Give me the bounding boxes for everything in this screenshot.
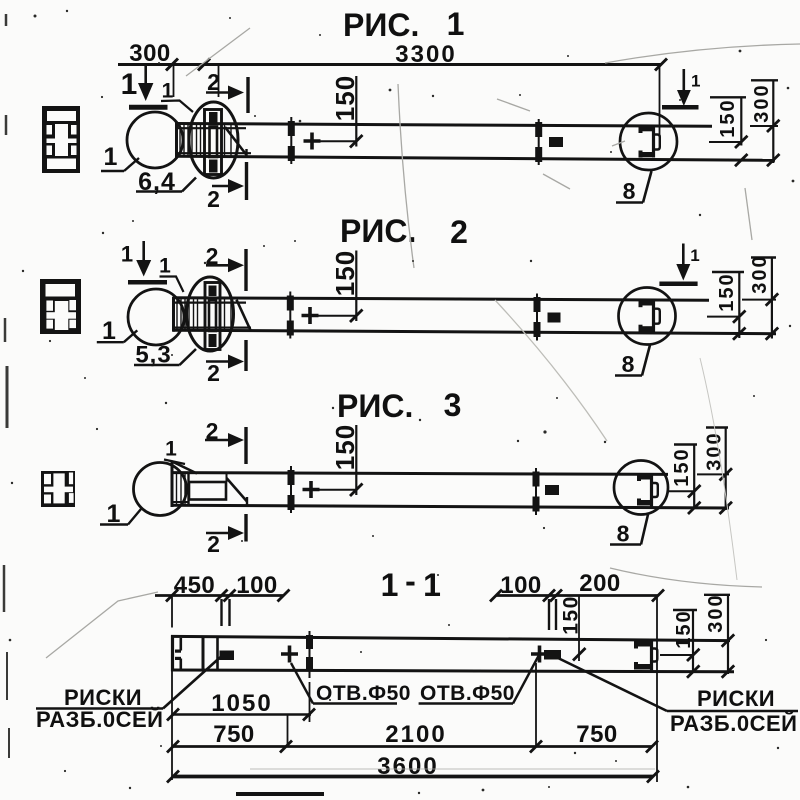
- section marker 1 right fig2: [659, 244, 697, 284]
- dim 150 right sect: [660, 610, 700, 672]
- dim 150 right fig1: [709, 97, 748, 148]
- dim 1050: [167, 682, 315, 722]
- section marker 1 right fig1: [662, 69, 699, 107]
- svg-text:РАЗБ.0СЕЙ: РАЗБ.0СЕЙ: [670, 711, 797, 736]
- svg-text:1: 1: [690, 246, 699, 265]
- detail circle 8 fig2: [619, 288, 676, 345]
- hatch block fig1 left end: [177, 124, 251, 157]
- left bracket sect: [175, 638, 181, 670]
- svg-text:8: 8: [617, 521, 630, 547]
- svg-text:2: 2: [207, 360, 220, 386]
- label otv f50 right: [420, 682, 515, 705]
- svg-text:3600: 3600: [377, 753, 438, 780]
- beam section 1-1: [171, 635, 734, 672]
- black mark fig1: [549, 137, 563, 147]
- section marker 2 bottom fig2: [206, 340, 246, 371]
- hatch block fig2 left end: [174, 298, 251, 331]
- svg-text:1: 1: [159, 255, 171, 278]
- svg-text:1: 1: [162, 80, 174, 103]
- end bracket fig3: [637, 473, 658, 507]
- end bracket fig1: [639, 125, 660, 158]
- black mark fig2: [548, 313, 561, 323]
- dim 150 mid fig2: [311, 251, 363, 323]
- black mark sect right: [544, 650, 561, 660]
- svg-text:750: 750: [213, 721, 255, 748]
- label 1 circle fig1: [104, 143, 118, 171]
- svg-text:1: 1: [121, 242, 133, 267]
- label riski left: [36, 685, 163, 732]
- axis mark plate fig3: [533, 468, 540, 515]
- beam fig2: [173, 297, 776, 334]
- svg-text:3300: 3300: [395, 41, 456, 68]
- dim 300 right fig2: [733, 258, 778, 340]
- dims 450 100 top left sect: [155, 590, 290, 628]
- svg-text:150: 150: [671, 447, 693, 486]
- svg-text:-: -: [405, 563, 416, 599]
- right bracket sect: [634, 640, 657, 670]
- label 1 circle fig2: [102, 317, 116, 345]
- label otv f50 left: [316, 682, 411, 705]
- svg-text:450: 450: [174, 572, 216, 599]
- svg-text:100: 100: [236, 572, 278, 599]
- label 8 fig1: [623, 178, 636, 204]
- dims 100 200 top right sect: [490, 590, 664, 783]
- svg-text:300: 300: [751, 83, 773, 122]
- svg-text:150: 150: [673, 609, 695, 648]
- svg-text:750: 750: [576, 721, 618, 748]
- svg-text:150: 150: [330, 250, 360, 296]
- dim text 3300: [395, 41, 456, 68]
- svg-text:150: 150: [717, 98, 739, 137]
- svg-text:2: 2: [207, 69, 220, 95]
- svg-text:РИС.: РИС.: [337, 388, 413, 424]
- axis mark plate fig1: [535, 119, 542, 165]
- dim 300 right sect: [687, 595, 734, 678]
- svg-text:1: 1: [447, 6, 465, 42]
- svg-text:8: 8: [623, 178, 636, 204]
- svg-text:2: 2: [206, 243, 219, 269]
- svg-text:300: 300: [704, 431, 726, 470]
- svg-text:2: 2: [207, 186, 220, 212]
- section marker 2 top fig2: [206, 249, 246, 291]
- axis mark plate fig2: [534, 294, 541, 341]
- svg-text:2: 2: [206, 418, 219, 444]
- inner plates sect left: [203, 637, 218, 671]
- section marker 2 bottom fig3: [206, 514, 246, 542]
- dim 150 mid fig1: [313, 76, 363, 148]
- black mark sect left: [220, 651, 235, 661]
- dim 150 mid fig3: [312, 425, 363, 496]
- svg-text:100: 100: [500, 572, 542, 599]
- svg-text:РИС.: РИС.: [340, 213, 416, 249]
- svg-text:1: 1: [102, 317, 116, 345]
- cross-section symbol fig3: [41, 471, 75, 507]
- dim 750 2100 750: [167, 663, 658, 753]
- cross-section symbol fig2: [40, 279, 81, 334]
- dim 150 right fig2: [707, 272, 746, 338]
- cross-section symbol fig1: [42, 106, 80, 173]
- svg-text:1: 1: [381, 567, 399, 603]
- axis cross fig1: [304, 133, 321, 150]
- detail circle 8 fig1: [620, 113, 677, 170]
- svg-text:3: 3: [444, 387, 462, 423]
- label 5,3 fig2: [135, 342, 171, 369]
- page edge dashes left: [4, 14, 9, 758]
- beam fig3: [171, 461, 729, 508]
- svg-text:2100: 2100: [385, 721, 446, 748]
- thick tick dim left fig3: [288, 466, 295, 513]
- title 1 - 1: [381, 563, 441, 603]
- svg-text:2: 2: [450, 214, 468, 250]
- hatch block fig3 left end: [172, 473, 189, 506]
- svg-text:1: 1: [121, 68, 138, 101]
- section marker 2 top fig1: [206, 77, 248, 113]
- label 6,4 fig1: [138, 168, 176, 196]
- anchor bolt fig1: [205, 110, 222, 175]
- thick tick dim sect: [306, 631, 313, 678]
- svg-text:РИСКИ: РИСКИ: [697, 686, 775, 711]
- dim text 300: [129, 40, 171, 67]
- detail circle 1 fig3: [134, 463, 187, 516]
- svg-text:1: 1: [423, 567, 441, 603]
- detail circle 1 fig1: [127, 112, 183, 168]
- svg-text:8: 8: [622, 351, 635, 377]
- title РИС. 3: [337, 387, 461, 424]
- black mark fig3: [545, 485, 559, 495]
- svg-text:РИС.: РИС.: [343, 7, 419, 43]
- svg-text:1: 1: [691, 72, 700, 91]
- thick tick dim left fig2: [287, 292, 294, 339]
- axis cross sect left: [281, 646, 298, 663]
- section marker 1 left fig2: [128, 241, 167, 282]
- detail ellipse fig2: [187, 277, 234, 351]
- section marker 2 top fig3: [205, 427, 246, 464]
- label 1 bolt fig1: [162, 80, 174, 103]
- svg-text:1050: 1050: [211, 690, 272, 717]
- dim 150 right fig3: [668, 445, 701, 510]
- label 1 circle fig3: [107, 500, 121, 528]
- axis cross fig3: [303, 481, 320, 498]
- axis cross fig2: [302, 307, 319, 324]
- anchor bolt fig2: [205, 283, 220, 350]
- thick tick dim left fig1: [288, 117, 295, 164]
- svg-text:300: 300: [129, 40, 171, 67]
- svg-text:200: 200: [579, 570, 621, 597]
- svg-text:150: 150: [330, 424, 360, 470]
- dim 3600: [167, 671, 659, 783]
- label riski right: [670, 686, 797, 736]
- detail ellipse fig1: [189, 102, 238, 178]
- dim 300 right fig1: [735, 80, 780, 166]
- svg-text:150: 150: [716, 272, 738, 311]
- svg-text:ОТВ.Ф50: ОТВ.Ф50: [316, 682, 411, 705]
- beam fig1: [176, 123, 775, 161]
- label 8 fig2: [622, 351, 635, 377]
- bottom page mark: [236, 792, 324, 796]
- svg-text:1: 1: [165, 438, 177, 461]
- label 1 bolt fig2: [159, 255, 171, 278]
- dim 300 right fig3: [688, 428, 732, 515]
- dimension 300/3300 top line fig1: [118, 59, 667, 136]
- axis cross sect right: [531, 646, 548, 663]
- title РИС. 2: [340, 213, 468, 250]
- anchor block fig3: [189, 474, 247, 507]
- svg-text:РАЗБ.0СЕЙ: РАЗБ.0СЕЙ: [36, 707, 163, 732]
- section marker 2 bottom fig1: [212, 162, 247, 200]
- end bracket fig2: [639, 299, 660, 332]
- svg-text:150: 150: [330, 75, 360, 121]
- detail circle 1 fig2: [128, 289, 184, 345]
- title РИС. 1: [343, 6, 464, 43]
- svg-text:ОТВ.Ф50: ОТВ.Ф50: [420, 682, 515, 705]
- svg-text:150: 150: [560, 595, 583, 635]
- svg-text:2: 2: [207, 531, 220, 557]
- section marker 1 left fig1: [129, 65, 168, 108]
- label 1 roof fig3: [165, 438, 177, 461]
- svg-text:300: 300: [705, 593, 727, 632]
- label 8 fig3: [617, 521, 630, 547]
- svg-text:1: 1: [104, 143, 118, 171]
- detail circle 8 fig3: [614, 461, 668, 515]
- svg-text:300: 300: [749, 254, 771, 293]
